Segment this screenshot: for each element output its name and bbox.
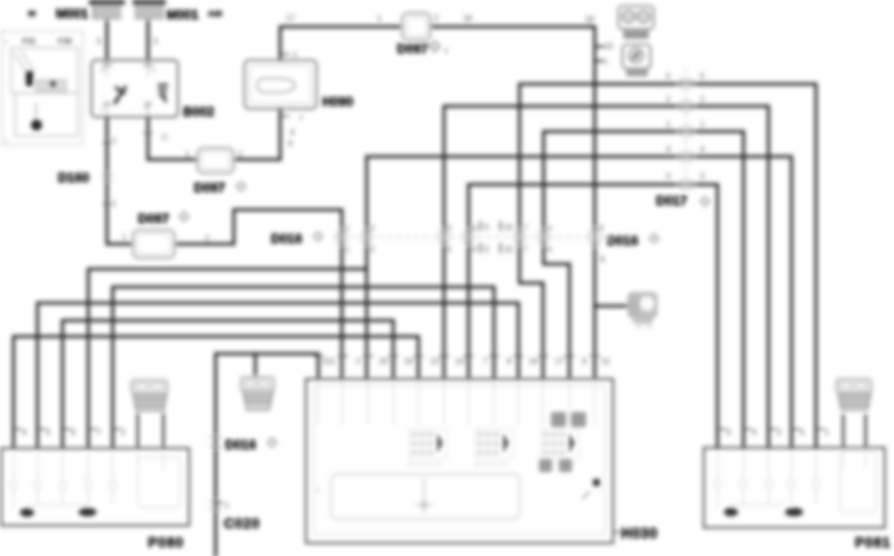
svg-text:4: 4	[22, 428, 27, 437]
svg-text:6: 6	[472, 245, 477, 254]
svg-text:M001: M001	[56, 6, 89, 21]
svg-text:2: 2	[700, 95, 705, 104]
svg-text:7: 7	[483, 357, 488, 366]
svg-text:1: 1	[345, 245, 350, 254]
svg-text:5: 5	[447, 245, 452, 254]
svg-text:F30: F30	[58, 37, 72, 46]
svg-text:H030: H030	[621, 526, 658, 542]
svg-text:1: 1	[345, 224, 350, 233]
svg-text:1: 1	[377, 14, 382, 23]
svg-text:D017: D017	[656, 193, 687, 208]
svg-text:8: 8	[599, 224, 604, 233]
svg-text:6: 6	[293, 52, 297, 59]
svg-text:6: 6	[71, 428, 76, 437]
svg-text:3: 3	[726, 428, 731, 437]
svg-text:3: 3	[484, 245, 489, 254]
svg-text:C: C	[162, 133, 168, 142]
svg-text:a: a	[316, 488, 320, 494]
svg-text:17: 17	[286, 14, 295, 23]
svg-text:1: 1	[666, 120, 671, 129]
svg-text:M001: M001	[166, 7, 199, 22]
svg-text:D016: D016	[225, 437, 256, 452]
svg-text:5: 5	[800, 428, 805, 437]
svg-text:2: 2	[121, 428, 126, 437]
svg-text:18: 18	[585, 15, 594, 24]
svg-text:C020: C020	[224, 515, 260, 531]
svg-text:5: 5	[101, 68, 105, 74]
svg-text:30: 30	[28, 11, 36, 18]
svg-text:8: 8	[507, 357, 512, 366]
svg-text:2: 2	[205, 234, 210, 243]
svg-text:15: 15	[604, 42, 613, 51]
svg-text:5: 5	[700, 72, 705, 81]
svg-text:9: 9	[582, 357, 587, 366]
svg-text:2: 2	[666, 95, 671, 104]
svg-text:P081: P081	[855, 534, 891, 550]
svg-text:1: 1	[101, 107, 105, 113]
svg-text:A1B: A1B	[208, 11, 222, 18]
svg-text:1: 1	[112, 199, 117, 208]
svg-text:13: 13	[430, 357, 439, 366]
svg-text:8: 8	[600, 255, 605, 264]
svg-text:6: 6	[472, 224, 477, 233]
svg-text:19: 19	[404, 357, 413, 366]
svg-text:1: 1	[185, 150, 190, 159]
svg-text:1: 1	[603, 57, 608, 66]
svg-text:4: 4	[666, 145, 671, 154]
svg-text:5: 5	[46, 428, 51, 437]
svg-text:7: 7	[523, 224, 528, 233]
svg-text:2: 2	[777, 428, 782, 437]
svg-text:2: 2	[370, 224, 375, 233]
svg-text:B002: B002	[183, 104, 214, 119]
svg-text:16: 16	[529, 357, 538, 366]
svg-text:D016: D016	[607, 233, 638, 248]
svg-text:1: 1	[122, 233, 127, 242]
svg-text:D097: D097	[397, 41, 428, 56]
svg-text:1: 1	[4, 40, 8, 46]
svg-text:F31: F31	[22, 37, 36, 46]
svg-text:2: 2	[238, 150, 243, 159]
svg-text:4: 4	[290, 128, 295, 137]
svg-text:12: 12	[601, 357, 610, 366]
svg-text:5: 5	[97, 37, 102, 46]
svg-text:D097: D097	[138, 211, 169, 226]
svg-text:1: 1	[444, 48, 448, 55]
svg-text:5: 5	[666, 72, 671, 81]
svg-text:3: 3	[153, 37, 158, 46]
svg-text:P080: P080	[148, 534, 184, 550]
svg-text:2: 2	[434, 14, 439, 23]
svg-text:1: 1	[225, 501, 230, 510]
svg-text:4: 4	[700, 145, 705, 154]
svg-text:20: 20	[379, 357, 388, 366]
svg-text:4: 4	[752, 428, 757, 437]
svg-text:1: 1	[112, 136, 117, 145]
svg-text:1: 1	[700, 120, 705, 129]
svg-text:3: 3	[484, 223, 489, 232]
svg-text:6: 6	[288, 139, 293, 148]
svg-text:18: 18	[463, 14, 472, 23]
svg-text:10: 10	[504, 223, 513, 232]
svg-text:1: 1	[825, 428, 830, 437]
svg-text:14: 14	[455, 357, 464, 366]
svg-text:17: 17	[555, 357, 564, 366]
svg-text:4: 4	[547, 224, 552, 233]
svg-text:3: 3	[700, 172, 705, 181]
svg-text:4: 4	[547, 245, 552, 254]
svg-text:5: 5	[447, 224, 452, 233]
svg-text:4: 4	[299, 115, 303, 122]
svg-text:1: 1	[331, 357, 336, 366]
svg-text:+: +	[83, 476, 87, 482]
svg-text:10: 10	[504, 245, 513, 254]
svg-text:2: 2	[356, 357, 361, 366]
svg-text:D016: D016	[271, 231, 302, 246]
svg-text:7: 7	[97, 428, 102, 437]
svg-text:2: 2	[370, 245, 375, 254]
svg-text:3: 3	[152, 68, 156, 74]
svg-text:D097: D097	[194, 180, 225, 195]
svg-text:D160: D160	[58, 170, 89, 185]
svg-text:3: 3	[666, 172, 671, 181]
svg-text:H090: H090	[322, 94, 353, 109]
svg-text:7: 7	[523, 245, 528, 254]
